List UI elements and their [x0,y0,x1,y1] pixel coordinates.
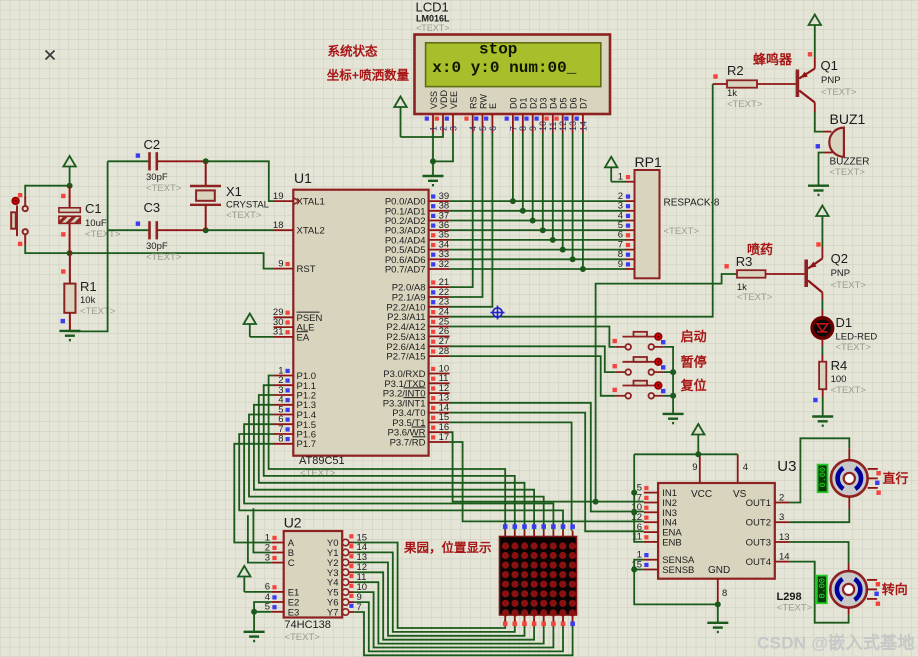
svg-text:<TEXT>: <TEXT> [226,210,262,221]
svg-text:1: 1 [618,172,623,183]
svg-text:12: 12 [558,121,568,131]
wire P3.3 to IN3 [450,403,644,512]
svg-text:D3: D3 [539,97,549,109]
svg-text:RW: RW [478,94,488,109]
U3 right pins OUT1-4 [775,502,790,504]
svg-text:OUT1: OUT1 [746,498,771,509]
U3 left pins [644,492,658,494]
BUZ1 state square [816,144,820,148]
capacitor C2 [108,160,149,162]
wire C3 branch to ground [70,230,108,331]
svg-text:OUT3: OUT3 [746,538,771,549]
svg-text:9: 9 [528,126,538,131]
key SW [11,196,28,245]
svg-text:<TEXT>: <TEXT> [664,226,700,237]
svg-text:PNP: PNP [831,268,851,279]
svg-text:D7: D7 [579,97,589,109]
svg-text:ENB: ENB [662,537,682,548]
transistor Q1 [796,70,800,98]
svg-text:D4: D4 [549,97,559,109]
svg-text:R1: R1 [80,279,97,294]
svg-text:8: 8 [278,434,283,445]
mcu U1 body [293,190,428,456]
key 暂停 [616,357,664,375]
svg-text:U1: U1 [294,170,312,186]
svg-text:Q1: Q1 [821,58,838,73]
matrix bottom pins [504,615,506,622]
svg-text:11: 11 [548,122,558,131]
node key2 common [670,369,676,375]
svg-text:XTAL2: XTAL2 [297,226,325,237]
svg-text:<TEXT>: <TEXT> [416,23,450,33]
ground R1 [59,331,80,340]
svg-text:<TEXT>: <TEXT> [821,87,857,98]
svg-text:4: 4 [468,126,478,131]
wire key bottom to RST [25,245,273,269]
svg-text:0.00: 0.00 [818,467,828,487]
svg-text:stop: stop [479,41,517,59]
node IN2 R3net [593,499,599,505]
respack RP1 body [635,170,660,278]
wire P3.5 to matrix col8 [450,422,572,530]
node X1 top [203,158,209,164]
ground U2 [244,632,265,641]
node E3 [251,609,257,615]
power symbol EA [244,314,256,325]
svg-text:U2: U2 [284,515,302,531]
key 启动 interactive circle [655,333,662,340]
svg-text:直行: 直行 [883,471,909,486]
svg-text:VSS: VSS [429,91,439,109]
wire P2.6 to key2 [450,346,616,372]
power symbol key [63,156,75,167]
svg-text:GND: GND [708,565,730,576]
lcd pin stubs and numbers [432,114,434,133]
U3 top pins VCC VS [699,454,701,483]
svg-text:D5: D5 [559,97,569,109]
U1 right pin stubs P0 [429,200,450,202]
svg-text:R4: R4 [831,358,848,373]
wires P1.0-P1.5 stairs to matrix columns [269,376,506,531]
U2 right pins Y0-Y7 [342,539,348,545]
svg-text:D0: D0 [509,97,519,109]
key state squares [18,193,22,197]
R1 state squares [61,269,65,273]
svg-text:LCD1: LCD1 [416,0,449,15]
svg-text:<TEXT>: <TEXT> [737,292,773,303]
svg-text:RESPACK-8: RESPACK-8 [664,198,720,209]
svg-text:<TEXT>: <TEXT> [80,306,116,317]
matrix display body [500,537,577,616]
svg-text:CRYSTAL: CRYSTAL [226,200,269,211]
svg-text:C2: C2 [144,137,161,152]
wire VCC VS top [634,453,738,455]
svg-text:转向: 转向 [882,582,908,597]
C2 state square [136,153,140,157]
Q1 state square [808,52,812,56]
svg-text:1k: 1k [727,88,737,99]
key 复位 [616,381,664,399]
svg-text:OUT2: OUT2 [746,518,771,529]
power symbol U3 [692,424,704,435]
svg-text:E: E [488,103,498,109]
svg-text:EA: EA [297,332,310,343]
resistor R1 [69,253,71,284]
wires D0-D7 columns [512,133,514,201]
svg-text:14: 14 [578,121,588,131]
svg-text:8: 8 [518,126,528,131]
svg-text:C: C [288,558,295,569]
wire P3.4 to ENA [450,413,644,532]
power symbol Q1 [809,15,821,26]
lcd screen [426,43,601,87]
svg-text:6: 6 [488,126,498,131]
node key-C1 top [67,183,73,189]
svg-text:暂停: 暂停 [681,354,707,369]
node SENSB [631,567,637,573]
wires P0 bus to RP1 [450,200,625,202]
motor 直行 display [818,465,828,493]
R3 state square [724,264,728,268]
svg-text:10k: 10k [80,295,96,306]
node VSS-VEE [430,158,436,164]
svg-text:PNP: PNP [821,75,841,86]
wire VSS down [432,133,434,176]
power symbol Q2 [816,206,828,217]
svg-text:2: 2 [438,126,448,131]
svg-text:14: 14 [779,551,790,562]
svg-text:蜂鸣器: 蜂鸣器 [753,52,793,67]
svg-text:18: 18 [273,220,284,231]
svg-text:R2: R2 [727,63,744,78]
svg-text:<TEXT>: <TEXT> [777,603,813,614]
power symbol VDD [394,97,406,108]
wire C1 top lead [69,186,71,208]
wire VDD [401,133,444,137]
Q1 collector wire to buzzer [814,103,816,113]
svg-text:D1: D1 [519,97,529,109]
U1 XTAL1 clock mark [293,198,299,205]
svg-text:X1: X1 [226,184,242,199]
wire VEE [433,133,453,161]
U3 GND pin [717,579,719,605]
svg-text:10uF: 10uF [85,218,107,229]
svg-text:30pF: 30pF [146,172,168,183]
svg-text:2: 2 [779,492,784,503]
led D1 [812,318,832,338]
marker origin [491,306,505,320]
wire R2 to P2.3 [450,84,713,317]
svg-text:XTAL1: XTAL1 [297,197,325,208]
svg-text:VDD: VDD [439,89,449,109]
node key3 common [670,393,676,399]
svg-text:D6: D6 [568,97,578,109]
BUZ1 bottom wire [824,152,833,154]
Q2 collector wire [821,293,823,301]
Q1 emitter wire [814,57,816,69]
svg-text:<TEXT>: <TEXT> [727,99,763,110]
buzzer BUZ1 [829,128,844,157]
wire OUT1 to motor1 top [848,448,850,460]
svg-text:CSDN @嵌入式基地: CSDN @嵌入式基地 [757,633,915,653]
node U3 power [695,451,701,457]
svg-text:1: 1 [428,126,438,131]
svg-text:C1: C1 [85,201,102,216]
lcd LCD1 body [415,35,611,115]
svg-text:BUZ1: BUZ1 [830,111,866,127]
wire XTAL1 [206,161,274,201]
svg-text:3: 3 [448,126,458,131]
wire P3.7 to IN4 [450,442,644,521]
RP1 pin stubs [625,181,635,183]
svg-text:<TEXT>: <TEXT> [836,342,872,353]
key 复位 squares [613,388,617,392]
wire OUT3 to motor2 top [848,563,850,571]
svg-text:17: 17 [439,432,450,443]
U1 left pin stubs [274,200,294,202]
svg-text:P1.7: P1.7 [297,439,317,450]
wire XTAL2 [206,229,274,231]
svg-text:4: 4 [743,462,748,473]
R4 bottom wire [822,389,824,397]
key 暂停 interactive circle [655,358,662,365]
svg-text:100: 100 [831,374,847,385]
svg-text:复位: 复位 [680,378,707,393]
svg-text:VS: VS [733,489,747,500]
U1 right pin stubs P2 [429,286,450,288]
svg-text:P0.7/AD7: P0.7/AD7 [385,265,426,276]
wire U2 C riser [248,515,272,562]
C1 state squares [61,194,65,198]
svg-text:<TEXT>: <TEXT> [146,183,182,194]
svg-text:RP1: RP1 [635,154,662,170]
capacitor C1 [59,208,80,213]
R4 state square [813,398,817,402]
D1 to R4 wire [821,339,823,346]
motor 直行 right pins [868,468,878,470]
key 暂停 squares [613,364,617,368]
C1 bottom lead [69,223,71,253]
svg-text:9: 9 [278,258,283,269]
svg-text:果园，位置显示: 果园，位置显示 [403,540,492,555]
svg-text:系统状态: 系统状态 [328,44,379,59]
svg-text:74HC138: 74HC138 [284,619,330,631]
matrix dots [502,542,576,616]
key 复位 interactive circle [655,382,662,389]
svg-text:31: 31 [273,327,284,338]
wire OUT2 to motor1 bottom [848,497,850,509]
crystal X1 [205,161,207,186]
U1 INT WR RD overlines [404,387,426,389]
wires U2 Y outputs to matrix rows [354,543,505,629]
svg-text:C3: C3 [144,200,161,215]
capacitor C3 [108,229,149,231]
wire E to P2.2 [450,133,493,307]
wire P1.7 to U2 A [234,444,273,543]
U2 left pins [272,542,284,544]
svg-text:OUT4: OUT4 [746,557,771,568]
svg-text:32: 32 [439,259,450,270]
svg-text:5: 5 [478,126,488,131]
svg-text:<TEXT>: <TEXT> [831,280,867,291]
resistor R4 [819,362,826,390]
svg-text:Y7: Y7 [327,608,339,619]
wire keys common [664,347,674,414]
svg-text:SENSB: SENSB [662,565,694,576]
resistor R3 [737,270,766,278]
svg-text:RST: RST [297,264,316,275]
svg-text:L298: L298 [777,591,802,603]
transistor Q2 [804,260,808,288]
key interactive circle [12,198,19,205]
wire RS to P2.0 [450,133,473,287]
power symbol RP1 [605,157,617,168]
svg-text:喷药: 喷药 [747,242,773,257]
ground LCD [423,176,444,185]
wire P2.4 to key1 [450,327,616,347]
svg-text:9: 9 [692,462,697,473]
motor 转向 display [817,576,827,604]
svg-text:BUZZER: BUZZER [830,157,870,168]
svg-text:<TEXT>: <TEXT> [830,167,866,178]
svg-text:P2.7/A15: P2.7/A15 [386,352,425,363]
svg-text:LED-RED: LED-RED [836,332,878,343]
motor 转向 [830,571,867,608]
svg-text:19: 19 [273,191,284,202]
resistor R2 [713,83,727,85]
ground R4 [812,417,833,426]
svg-text:13: 13 [779,532,790,543]
matrix top pins [504,531,506,537]
svg-text:U3: U3 [777,458,796,475]
ground U3 [707,623,728,632]
svg-text:13: 13 [568,121,578,131]
R2 state square [713,74,717,78]
svg-text:<TEXT>: <TEXT> [146,252,182,263]
wire key top [25,186,69,196]
svg-text:坐标+喷洒数量: 坐标+喷洒数量 [327,68,410,83]
svg-text:28: 28 [439,346,450,357]
svg-text:8: 8 [722,588,727,599]
node X1 bottom [203,227,209,233]
svg-text:<TEXT>: <TEXT> [284,632,320,643]
svg-text:10: 10 [538,121,548,131]
power symbol E1 [238,566,250,577]
key 启动 [616,332,664,350]
wire P2.7 to key3 [450,356,616,396]
svg-text:启动: 启动 [681,329,707,344]
wire E2 E3 ground [254,602,272,632]
wire RW to P2.1 [450,133,483,297]
wire P3.6 to IN2 [450,432,644,501]
svg-text:<TEXT>: <TEXT> [831,385,867,396]
wire EA [250,336,274,338]
origin marker x [46,51,55,60]
motor 转向 right pins [867,579,877,581]
driver U3 body [658,483,775,579]
svg-text:x:0 y:0 num:00_: x:0 y:0 num:00_ [432,59,576,77]
wire E1 [244,591,271,593]
ground BUZ1 [808,186,829,195]
ground keys [663,414,684,423]
svg-text:RS: RS [469,96,479,109]
svg-text:30pF: 30pF [146,241,168,252]
svg-text:3: 3 [265,552,270,563]
wire OUT4 to motor2 bottom [848,608,850,615]
wire P1.6 stair to matrix col7 [239,434,563,531]
svg-text:AT89C51: AT89C51 [299,455,345,467]
wire RP1 pin1 [611,181,625,183]
wire C2-C3 left vertical [107,161,109,230]
svg-text:0.00: 0.00 [817,578,827,598]
Q2 state square [816,242,820,246]
C3 state square [136,222,140,226]
svg-text:VEE: VEE [449,91,459,109]
node C1 bottom [67,250,73,256]
wire U2 B riser [253,508,271,552]
svg-text:LM016L: LM016L [416,14,450,24]
svg-text:9: 9 [618,259,623,270]
svg-text:3: 3 [779,512,784,523]
svg-text:D2: D2 [529,97,539,109]
svg-text:Q2: Q2 [831,251,848,266]
wire power to IN1 IN3 ENB [634,454,644,542]
svg-text:E3: E3 [288,607,300,618]
svg-text:VCC: VCC [691,489,712,500]
motor 直行 [831,460,868,497]
svg-text:7: 7 [508,126,518,131]
decoder U2 body [284,531,343,618]
wire SENSA SENSB gnd [634,560,718,605]
key 启动 squares [613,339,617,343]
wire IN2 riser to R3 [596,274,737,502]
svg-text:D1: D1 [836,315,853,330]
U1 right pin stubs P3 [429,373,450,375]
node U3 gnd [715,601,721,607]
svg-text:P3.7/RD: P3.7/RD [390,438,426,449]
